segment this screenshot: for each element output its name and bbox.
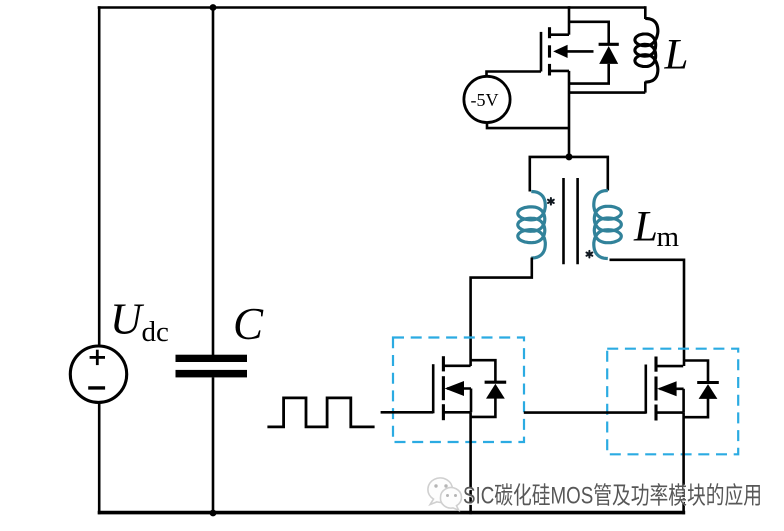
wire -5V top lead to Q1 gate — [487, 72, 542, 77]
wire right winding bottom to Q3 drain — [610, 260, 685, 366]
polarity dot star right winding — [587, 251, 593, 258]
wire left winding bottom to Q2 drain — [471, 258, 532, 367]
transistor Q2 body arrow — [445, 381, 471, 396]
wire Q2 source down to bottom rail — [469, 412, 472, 514]
transistor Q3 channel bars — [654, 357, 657, 421]
svg-text:L: L — [633, 204, 658, 251]
transistor Q2 source lead — [443, 411, 470, 414]
diode D2 cathode bar — [485, 381, 507, 384]
transistor Q1 drain lead — [550, 33, 570, 36]
transistor Q3 body arrow — [657, 381, 683, 396]
capacitor C top plate — [176, 355, 248, 362]
diode D1 triangle — [599, 46, 618, 64]
source Udc plus sign — [90, 350, 105, 365]
transistor Q2 gate line — [432, 364, 435, 413]
transistor Q3 drain lead — [656, 365, 683, 368]
wire diode D1 bottom connection — [569, 64, 609, 84]
wire top rail — [98, 6, 646, 9]
node junction dot transformer center tap — [566, 153, 573, 160]
wire Q3 source down to bottom rail — [682, 413, 685, 515]
wire bottom rail — [98, 511, 686, 515]
polarity dot star left winding — [548, 198, 554, 205]
source V1 -5V circle — [464, 76, 510, 122]
square wave gate signal symbol — [267, 398, 374, 427]
wire left branch upper — [98, 6, 101, 346]
transformer primary coil Lm left winding — [518, 192, 546, 259]
transistor Q2 drain lead — [443, 364, 470, 367]
wire left branch lower — [98, 402, 101, 514]
wire capacitor branch lower — [212, 377, 215, 514]
diode D2 anode-cathode wire — [471, 360, 496, 417]
transformer core line left — [562, 178, 565, 264]
svg-text:C: C — [233, 299, 264, 349]
transistor Q3 source lead — [656, 411, 683, 414]
wire -5V bottom lead — [487, 123, 569, 129]
transistor Q1 gate line — [540, 32, 543, 72]
svg-text:L: L — [664, 32, 689, 79]
svg-text:SIC碳化硅MOS管及功率模块的应用: SIC碳化硅MOS管及功率模块的应用 — [463, 483, 762, 510]
inductor L coil — [635, 19, 658, 83]
node junction dot bottom of capacitor branch — [210, 510, 217, 517]
diode D2 triangle — [486, 384, 505, 399]
diode D3 anode-cathode wire — [683, 361, 708, 418]
svg-text:-5V: -5V — [471, 90, 499, 110]
watermark logo chat bubbles — [428, 478, 462, 510]
wire Q1 source down to transformer node — [568, 71, 571, 157]
svg-text:m: m — [657, 221, 680, 253]
transistor Q1 source lead — [550, 70, 570, 73]
wire inductor L top stub — [644, 6, 647, 19]
transistor Q2 channel bars — [442, 356, 445, 420]
dashed module box around Q2 — [393, 338, 524, 443]
node junction dot top of capacitor branch — [210, 4, 217, 11]
capacitor C bottom plate — [176, 370, 248, 378]
diode D3 triangle — [699, 384, 718, 399]
dashed module box around Q3 — [607, 349, 738, 455]
source Udc circle — [70, 346, 126, 402]
wire inductor L bottom to Q1 source — [569, 91, 645, 94]
transformer core line right — [576, 178, 579, 264]
wire Q2 module to Q3 gate — [524, 411, 646, 414]
transistor Q1 channel bars — [548, 27, 551, 75]
transistor Q2 gate lead wire — [381, 411, 434, 414]
transistor Q3 gate line — [644, 365, 647, 414]
transformer secondary coil winding — [594, 191, 622, 259]
svg-text:dc: dc — [142, 316, 169, 348]
wire capacitor branch upper — [212, 6, 215, 355]
diode D1 cathode bar — [599, 43, 619, 46]
diode D3 cathode bar — [697, 381, 719, 384]
transistor Q2 body-source connection — [470, 389, 473, 413]
transistor Q3 body-source connection — [682, 389, 685, 413]
transistor Q1 body arrow — [553, 45, 593, 58]
source Udc minus sign — [88, 386, 105, 389]
wire transformer top tee — [530, 157, 608, 192]
wire inductor L bottom stub — [644, 82, 647, 93]
wire Q1 drain from top rail — [568, 6, 571, 35]
svg-text:U: U — [110, 295, 145, 344]
wire diode D1 top connection — [569, 22, 609, 44]
